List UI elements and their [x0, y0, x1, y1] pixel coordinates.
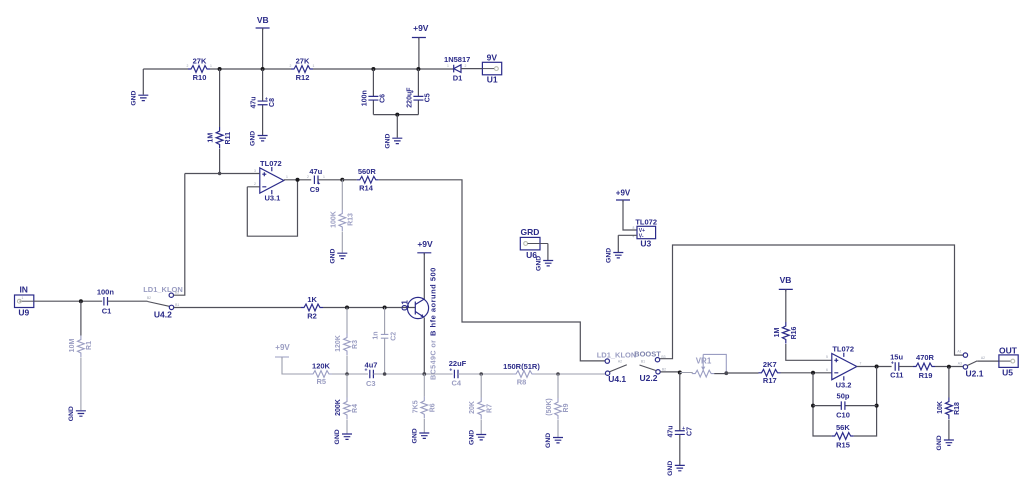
resistor R5	[310, 371, 332, 378]
svg-text:1: 1	[313, 64, 315, 68]
svg-text:100n: 100n	[361, 90, 368, 106]
svg-text:10K: 10K	[937, 401, 944, 414]
svg-text:+9V: +9V	[413, 23, 429, 33]
svg-text:+: +	[411, 90, 414, 96]
svg-text:B2: B2	[662, 368, 666, 372]
capacitor C8	[262, 69, 264, 135]
svg-text:1M: 1M	[774, 327, 781, 337]
svg-text:U9: U9	[18, 308, 29, 318]
svg-text:U5: U5	[1002, 367, 1013, 377]
svg-text:GND: GND	[411, 428, 418, 443]
svg-text:C10: C10	[836, 411, 850, 420]
svg-text:C5: C5	[425, 93, 432, 102]
svg-text:A1: A1	[957, 350, 961, 354]
svg-text:+: +	[365, 368, 368, 374]
resistor R4	[346, 374, 348, 398]
svg-text:2: 2	[187, 64, 189, 68]
switch U2.2	[655, 358, 659, 362]
svg-text:R15: R15	[836, 441, 850, 450]
ground	[142, 69, 144, 95]
svg-text:U3.2: U3.2	[836, 381, 852, 390]
svg-text:VR1: VR1	[696, 356, 712, 365]
svg-text:2: 2	[307, 175, 309, 179]
svg-text:U3.1: U3.1	[264, 194, 280, 203]
svg-text:120K: 120K	[335, 335, 342, 352]
svg-text:200K: 200K	[335, 399, 342, 416]
wire	[535, 373, 605, 375]
wire	[786, 344, 832, 360]
svg-text:GND: GND	[605, 248, 612, 263]
svg-text:GND: GND	[250, 131, 257, 146]
resistor R7	[480, 374, 482, 398]
svg-text:B1: B1	[641, 360, 645, 364]
svg-text:D1: D1	[453, 74, 463, 83]
svg-text:R1: R1	[86, 341, 93, 350]
svg-text:C2: C2	[391, 332, 398, 341]
switch U2.1	[963, 353, 967, 357]
wire	[714, 373, 726, 375]
svg-text:R18: R18	[954, 402, 961, 415]
svg-text:U4.2: U4.2	[154, 310, 172, 320]
svg-text:100n: 100n	[97, 287, 115, 296]
wire	[660, 371, 680, 373]
wire	[781, 372, 832, 374]
wire	[396, 115, 398, 138]
wire	[34, 300, 102, 302]
junction	[296, 178, 300, 182]
svg-text:2: 2	[465, 64, 467, 68]
ground	[553, 438, 563, 443]
svg-text:R8: R8	[517, 378, 527, 387]
svg-text:GND: GND	[936, 435, 943, 450]
svg-text:VB: VB	[780, 275, 792, 285]
resistor R14	[342, 179, 357, 181]
ground	[944, 440, 954, 445]
svg-text:GND: GND	[334, 429, 341, 444]
svg-text:OUT: OUT	[999, 345, 1018, 355]
svg-text:IN: IN	[19, 285, 28, 295]
ground	[392, 138, 402, 143]
svg-text:56K: 56K	[836, 423, 850, 432]
svg-text:+9V: +9V	[616, 189, 631, 198]
wire	[323, 307, 416, 309]
svg-text:R11: R11	[225, 132, 232, 145]
capacitor C6	[372, 69, 374, 115]
wire	[174, 307, 301, 309]
junction	[218, 67, 222, 71]
wire	[899, 366, 913, 368]
svg-text:R12: R12	[296, 73, 310, 82]
svg-text:47u: 47u	[309, 167, 322, 176]
capacitor C11	[895, 362, 899, 371]
wire	[247, 180, 297, 236]
svg-text:1: 1	[210, 64, 212, 68]
svg-text:47u: 47u	[250, 96, 257, 108]
capacitor C1	[104, 297, 108, 306]
svg-text:U4.1: U4.1	[608, 374, 626, 384]
wire	[935, 366, 963, 368]
ground	[419, 433, 429, 438]
wire	[185, 173, 260, 175]
svg-text:20K: 20K	[469, 401, 476, 414]
wire bypass loop	[660, 245, 964, 359]
svg-text:+9V: +9V	[275, 343, 290, 352]
capacitor C4	[454, 370, 458, 379]
svg-text:(50K): (50K)	[546, 398, 553, 416]
svg-text:U2.2: U2.2	[640, 373, 658, 383]
svg-text:C4: C4	[452, 378, 462, 387]
svg-text:470R: 470R	[916, 353, 935, 362]
junction	[395, 113, 399, 117]
wire	[108, 300, 148, 302]
wire feedback	[813, 367, 877, 437]
svg-text:U1: U1	[487, 75, 498, 85]
resistor R8	[513, 371, 535, 378]
svg-text:R9: R9	[563, 403, 570, 412]
wire	[262, 28, 264, 69]
svg-text:VB: VB	[257, 15, 269, 25]
svg-text:+9V: +9V	[417, 239, 433, 249]
svg-text:GND: GND	[667, 461, 674, 476]
svg-text:2K7: 2K7	[763, 360, 777, 369]
svg-text:U3: U3	[640, 239, 651, 249]
wire	[977, 360, 999, 362]
svg-text:1: 1	[22, 296, 24, 300]
junction	[79, 299, 83, 303]
svg-text:27K: 27K	[296, 57, 310, 66]
ground	[675, 465, 685, 470]
svg-text:1n: 1n	[373, 331, 380, 339]
svg-text:+: +	[265, 96, 268, 102]
wire	[373, 114, 418, 116]
ground	[76, 411, 86, 416]
svg-text:C6: C6	[379, 94, 386, 103]
junction	[416, 67, 420, 71]
junction	[947, 365, 951, 369]
svg-text:A2: A2	[981, 356, 985, 360]
svg-text:+: +	[682, 426, 685, 432]
svg-text:TL072: TL072	[260, 159, 282, 168]
svg-text:27K: 27K	[193, 57, 207, 66]
svg-text:C1: C1	[102, 306, 112, 315]
svg-text:5: 5	[826, 355, 828, 359]
wire	[623, 200, 637, 230]
svg-text:C8: C8	[269, 98, 276, 107]
wire	[458, 373, 513, 375]
svg-text:A3: A3	[958, 362, 962, 366]
junction	[678, 371, 682, 375]
svg-text:560R: 560R	[358, 167, 377, 176]
svg-text:R4: R4	[352, 404, 359, 413]
svg-text:R14: R14	[359, 184, 374, 193]
svg-text:1N5817: 1N5817	[444, 55, 470, 64]
svg-text:GND: GND	[468, 430, 475, 445]
resistor R16	[782, 322, 789, 344]
resistor R17	[759, 369, 781, 376]
svg-text:2: 2	[254, 182, 256, 186]
svg-text:6: 6	[826, 368, 828, 372]
wire	[143, 68, 453, 70]
svg-text:+: +	[449, 368, 452, 374]
potentiometer VR1	[680, 373, 692, 374]
wire	[318, 179, 342, 181]
resistor R15	[832, 433, 854, 440]
ground	[342, 434, 352, 439]
svg-text:GND: GND	[535, 256, 542, 271]
junction	[261, 67, 265, 71]
junction	[479, 372, 483, 376]
svg-text:C9: C9	[310, 185, 320, 194]
resistor R2	[301, 304, 323, 311]
resistor R11	[219, 69, 221, 174]
junction	[875, 404, 879, 408]
resistor R12	[291, 66, 313, 73]
svg-text:R16: R16	[791, 326, 798, 339]
resistor R9	[557, 374, 559, 398]
svg-text:1: 1	[447, 64, 449, 68]
capacitor C3	[370, 370, 374, 379]
ground	[543, 261, 553, 266]
svg-text:R5: R5	[317, 377, 327, 386]
svg-text:120K: 120K	[312, 362, 331, 371]
resistor R3	[346, 308, 348, 334]
junction	[724, 371, 728, 375]
svg-text:LD1_KLON: LD1_KLON	[597, 351, 637, 360]
svg-text:TL072: TL072	[635, 217, 657, 226]
svg-text:R19: R19	[919, 371, 933, 380]
svg-text:8: 8	[633, 226, 635, 230]
capacitor C2	[384, 308, 386, 335]
junction	[383, 306, 387, 310]
junction	[422, 372, 426, 376]
svg-text:1: 1	[286, 175, 288, 179]
svg-text:1M: 1M	[207, 133, 214, 143]
resistor R18	[948, 367, 950, 398]
wire	[174, 174, 185, 296]
wire	[373, 373, 452, 375]
wire	[726, 372, 758, 374]
capacitor C5	[417, 69, 419, 115]
junction	[556, 372, 560, 376]
svg-text:B hfe aorund 500: B hfe aorund 500	[429, 267, 438, 336]
svg-text:TL072: TL072	[832, 344, 854, 353]
svg-text:GND: GND	[384, 133, 391, 148]
svg-text:47u: 47u	[668, 425, 675, 437]
ground	[476, 435, 486, 440]
svg-text:1: 1	[323, 175, 325, 179]
svg-text:50p: 50p	[837, 392, 850, 401]
switch U4.1	[605, 359, 609, 363]
svg-text:B3: B3	[175, 291, 179, 295]
wire	[379, 180, 605, 361]
svg-text:R10: R10	[193, 73, 207, 82]
wire	[857, 366, 892, 368]
junction	[345, 372, 349, 376]
svg-text:GND: GND	[130, 90, 137, 105]
junction	[875, 365, 879, 369]
capacitor C10	[813, 405, 877, 407]
svg-text:A2: A2	[618, 360, 622, 364]
resistor R10	[188, 66, 210, 73]
svg-text:1K: 1K	[307, 295, 317, 304]
svg-text:3: 3	[254, 169, 256, 173]
wire	[547, 244, 549, 261]
svg-text:B2: B2	[147, 296, 151, 300]
svg-text:10M: 10M	[69, 339, 76, 353]
wire	[423, 253, 425, 300]
wire	[282, 357, 310, 374]
junction	[383, 372, 387, 376]
resistor R13	[341, 180, 343, 253]
svg-text:C3: C3	[366, 379, 376, 388]
svg-text:GND: GND	[545, 433, 552, 448]
capacitor C7	[679, 373, 681, 431]
wire	[461, 68, 482, 70]
svg-text:R13: R13	[348, 213, 355, 226]
wire	[618, 235, 637, 252]
resistor R6	[423, 374, 425, 397]
wire	[418, 38, 420, 70]
ground	[337, 253, 347, 258]
svg-text:GRD: GRD	[521, 227, 540, 237]
junction	[371, 67, 375, 71]
junction	[340, 178, 344, 182]
wire	[423, 318, 425, 375]
svg-text:C11: C11	[890, 370, 903, 379]
svg-text:150R(51R): 150R(51R)	[503, 362, 540, 371]
transistor Q1	[407, 297, 428, 318]
svg-text:R7: R7	[486, 404, 493, 413]
junction	[218, 172, 221, 175]
wire	[785, 289, 787, 322]
svg-text:GND: GND	[68, 406, 75, 421]
svg-text:+: +	[891, 361, 894, 367]
svg-text:R2: R2	[307, 311, 317, 320]
svg-text:7: 7	[860, 362, 862, 366]
svg-text:7K5: 7K5	[412, 400, 419, 413]
svg-text:R6: R6	[430, 403, 437, 412]
junction	[811, 404, 815, 408]
svg-text:100K: 100K	[330, 211, 337, 228]
wire	[332, 373, 368, 375]
svg-text:GND: GND	[329, 248, 336, 263]
capacitor C9	[314, 176, 318, 185]
svg-text:2: 2	[290, 64, 292, 68]
junction	[811, 371, 815, 375]
resistor R19	[913, 363, 935, 370]
ground	[258, 136, 268, 141]
svg-text:B1: B1	[175, 303, 179, 307]
svg-text:R3: R3	[352, 340, 359, 349]
svg-text:9V: 9V	[487, 53, 498, 63]
resistor R1	[80, 301, 82, 335]
svg-text:C7: C7	[687, 427, 694, 436]
svg-text:U2.1: U2.1	[966, 369, 984, 379]
junction	[345, 306, 349, 310]
svg-text:Q1: Q1	[400, 300, 409, 311]
wire	[284, 179, 311, 181]
ground	[613, 253, 623, 258]
svg-text:R17: R17	[763, 376, 777, 385]
